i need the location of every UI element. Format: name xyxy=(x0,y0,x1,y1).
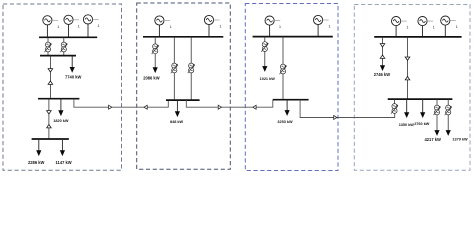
bus 4-1 xyxy=(374,36,461,38)
tie line area3-area4 xyxy=(300,100,395,118)
generator G6 xyxy=(265,16,281,29)
load L8 wire xyxy=(286,100,288,111)
isolator down on feeder xyxy=(47,111,52,114)
bus 2-2 xyxy=(166,99,200,101)
load L11 wire xyxy=(422,99,424,112)
wire: feeder T7 bus3-1 to bus3-2 xyxy=(282,37,284,100)
svg-text:1: 1 xyxy=(279,25,281,29)
svg-text:1: 1 xyxy=(433,25,435,29)
load L8 arrow xyxy=(285,110,290,116)
tie line area2-area3 xyxy=(186,100,272,108)
svg-text:1021 kW: 1021 kW xyxy=(260,77,276,81)
transformer T3 xyxy=(152,44,159,54)
svg-text:2760 kW: 2760 kW xyxy=(414,122,430,126)
svg-text:1: 1 xyxy=(220,24,222,28)
bus 1-3 xyxy=(38,98,79,100)
wire: gen G8 lead xyxy=(395,26,397,37)
bus 2-1 xyxy=(143,36,223,38)
svg-text:1: 1 xyxy=(98,24,100,28)
isolator up on feeder xyxy=(47,125,52,128)
isolator up on feeder xyxy=(405,77,410,80)
wire: transformer T6 feeder + load L7 xyxy=(264,37,266,67)
svg-text:1350 kW: 1350 kW xyxy=(399,123,415,127)
svg-text:1147 kW: 1147 kW xyxy=(56,160,72,165)
area 1 boundary xyxy=(3,4,122,170)
tie line area1-area2 xyxy=(74,99,168,108)
bus 3-2 xyxy=(273,99,309,101)
bus 3-1 xyxy=(253,36,333,38)
isolator down xyxy=(380,44,385,47)
wire: feeder with isolators + load L9 xyxy=(382,37,384,66)
bus 1-4 xyxy=(32,138,69,140)
generator G5 xyxy=(204,15,221,28)
isolator up on feeder xyxy=(48,81,53,84)
isolator up xyxy=(380,55,385,58)
tie arrow right a3-a4 xyxy=(334,116,337,120)
wire: feeder bus1-2 to bus1-3 xyxy=(49,56,51,99)
wire: gen G7 lead xyxy=(317,24,319,36)
wire: transformer T1 feeder xyxy=(47,37,49,55)
svg-text:848 kW: 848 kW xyxy=(170,120,184,124)
generator G7 xyxy=(314,15,331,28)
svg-text:3253 kW: 3253 kW xyxy=(277,120,293,124)
generator G10 xyxy=(441,16,458,29)
transformer T10 xyxy=(445,105,452,115)
svg-text:2746 kW: 2746 kW xyxy=(374,72,391,77)
load L11 arrow xyxy=(420,112,425,118)
transformer T4 xyxy=(171,63,178,73)
wire: feeder bus1-3 to bus1-4 xyxy=(48,99,50,139)
tie arrow left a2-a3 xyxy=(253,105,256,109)
load L10 arrow xyxy=(404,112,409,118)
generator G1 xyxy=(43,16,59,29)
svg-text:4217 kW: 4217 kW xyxy=(425,137,442,142)
transformer T1 xyxy=(45,42,52,52)
svg-text:7740 kW: 7740 kW xyxy=(65,75,82,80)
svg-text:2286 kW: 2286 kW xyxy=(28,160,45,165)
load L2 arrow xyxy=(58,110,63,116)
load L4 arrow xyxy=(60,150,65,156)
area 3 boundary xyxy=(245,4,338,171)
wire: gen G1 lead xyxy=(46,25,48,38)
wire: gen G2 lead xyxy=(68,24,70,37)
wire: transformer T2 feeder xyxy=(63,37,65,55)
wire: transformer T9 feeder + load L12 xyxy=(436,99,438,130)
bus 1-2 xyxy=(40,55,76,57)
isolator down on feeder xyxy=(48,69,53,72)
load L2 wire xyxy=(60,99,62,111)
load L5 arrow xyxy=(153,67,158,73)
wire: feeder bus4-1 to bus4-2 xyxy=(407,37,409,99)
wire: feeder T5 bus2-1 to bus2-2 xyxy=(190,37,192,100)
load L6 arrow xyxy=(175,111,180,117)
tie arrow right a1-a2 xyxy=(109,105,112,109)
wire: gen G9 lead xyxy=(422,26,424,37)
transformer T6 xyxy=(261,42,268,52)
svg-text:1: 1 xyxy=(329,24,331,28)
wire: feeder T4 bus2-1 to bus2-2 xyxy=(173,37,175,100)
transformer T7 xyxy=(280,64,287,74)
svg-text:1: 1 xyxy=(407,25,409,29)
svg-text:1: 1 xyxy=(170,25,172,29)
load L4 wire xyxy=(61,139,63,151)
transformer T9 xyxy=(434,105,441,115)
svg-text:1: 1 xyxy=(57,25,59,29)
wire: transformer T3 feeder + load L5 xyxy=(154,37,156,68)
load L10 wire xyxy=(406,99,408,112)
wire: gen G4 lead xyxy=(158,25,160,37)
load L9 arrow xyxy=(380,65,385,71)
tie arrow right a2-a3 xyxy=(218,105,221,109)
wire: gen G5 lead xyxy=(208,25,210,37)
load L7 arrow xyxy=(262,66,267,72)
load L3 arrow xyxy=(36,150,41,156)
load L13 arrow xyxy=(446,130,451,136)
svg-text:1: 1 xyxy=(456,25,458,29)
svg-text:1: 1 xyxy=(78,25,80,29)
isolator down on feeder xyxy=(405,57,410,60)
generator G3 xyxy=(83,15,99,28)
generator G2 xyxy=(64,15,80,28)
wire: transformer T10 feeder + load L13 xyxy=(447,99,449,130)
area 2 boundary xyxy=(137,3,231,169)
load L6 wire xyxy=(176,100,178,112)
wire: gen G10 lead xyxy=(444,25,446,37)
transformer T2 xyxy=(60,42,67,52)
load L3 wire xyxy=(38,139,40,151)
wire: transformer T8 tie lead xyxy=(394,99,396,106)
svg-text:1820 kW: 1820 kW xyxy=(53,119,69,123)
bus 1-1 xyxy=(39,36,97,38)
transformer T8 xyxy=(391,104,398,114)
svg-text:2086 kW: 2086 kW xyxy=(143,75,160,80)
wire: gen G6 lead xyxy=(269,25,271,37)
generator G9 xyxy=(418,17,435,30)
transformer T5 xyxy=(188,63,195,73)
generator G8 xyxy=(392,17,409,30)
bus 4-2 xyxy=(388,98,453,100)
load L1 arrow xyxy=(70,67,75,73)
wire: gen G3 lead xyxy=(87,24,89,37)
area 4 boundary xyxy=(354,5,470,171)
svg-text:1379 kW: 1379 kW xyxy=(452,137,468,141)
tie arrow left a1-a2 xyxy=(144,105,147,109)
generator G4 xyxy=(155,16,172,29)
load L1 wire xyxy=(71,56,73,68)
load L12 arrow xyxy=(434,130,439,136)
